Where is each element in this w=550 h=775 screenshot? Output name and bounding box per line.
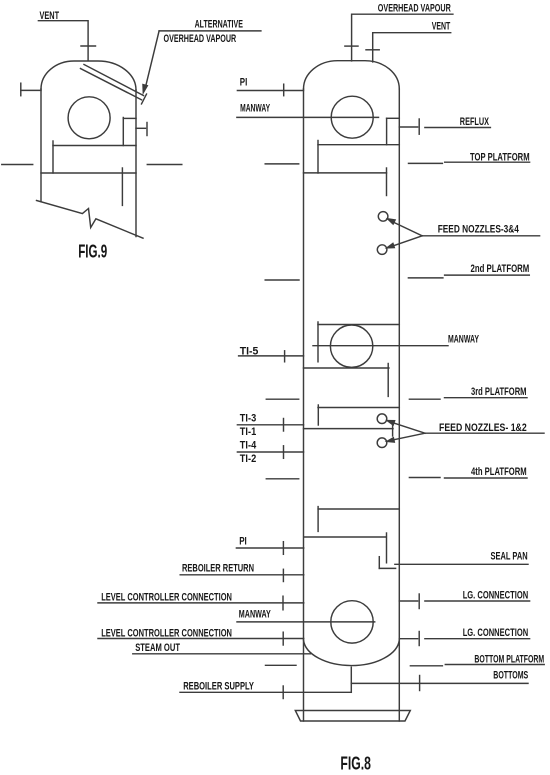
4th platform dash right [409,477,440,479]
manway leader line (bottom) [237,621,375,623]
seal pan downcomer vertical [386,533,388,563]
svg-text:2nd PLATFORM: 2nd PLATFORM [471,263,530,275]
alternative label arrowhead [143,85,147,93]
PI flange tick (bottom) [282,542,284,555]
tray 6 (FIG.8) [318,508,399,510]
PI nozzle line (top) [237,90,303,92]
LG connection flange tick (upper) [418,594,420,609]
svg-text:BOTTOM PLATFORM: BOTTOM PLATFORM [474,653,544,665]
level controller flange tick (upper) [282,596,284,610]
svg-text:LEVEL CONTROLLER CONNECTION: LEVEL CONTROLLER CONNECTION [101,627,232,639]
break line with zigzag (FIG.9) [37,201,144,239]
alternative label arrow shaft [146,31,159,85]
top platform label line [445,161,530,163]
TI-3/TI-1 nozzle line [237,424,303,426]
4th platform label line [445,477,528,479]
svg-text:FEED NOZZLES-3&4: FEED NOZZLES-3&4 [438,223,520,235]
left nozzle flange tick (FIG.9) [20,83,22,96]
svg-text:OVERHEAD VAPOUR: OVERHEAD VAPOUR [164,33,237,45]
TI-4/TI-2 nozzle line [237,451,303,453]
column left wall [303,89,305,721]
4th platform dash left [266,478,298,480]
reflux notch top (FIG.8) [387,117,400,119]
reflux flange tick [418,119,420,134]
downcomer 2 (FIG.8) [386,168,388,196]
pipe end flange tick (FIG.9) [142,94,147,104]
svg-text:OVERHEAD VAPOUR: OVERHEAD VAPOUR [378,3,451,15]
tray 5 (FIG.8) [318,407,399,409]
arrow to feed nozzle 4 [390,236,422,247]
alternative label underline [159,30,261,32]
PI flange tick (top) [283,84,285,96]
bottoms line [351,682,528,684]
vent nozzle flange tick (FIG.9) [81,45,96,47]
reflux notch vertical (FIG.8) [386,118,388,144]
svg-text:VENT: VENT [432,21,451,33]
LG connection label line (lower) [425,638,530,640]
arrow to feed nozzle 2 [390,433,425,440]
downcomer 5 (FIG.8) [317,405,319,425]
TI-5 flange tick [284,351,286,362]
svg-text:TI-4: TI-4 [240,440,257,452]
svg-text:REBOILER RETURN: REBOILER RETURN [182,562,254,574]
reflux nozzle line [399,126,417,128]
reboiler return line [180,574,304,576]
downcomer 4 (FIG.8) [387,364,389,397]
level controller connection line (lower) [98,638,304,640]
svg-text:FIG.8: FIG.8 [340,754,371,774]
TI-5 nozzle line [239,355,304,357]
tray 3 (FIG.8) [318,324,399,326]
svg-text:BOTTOMS: BOTTOMS [493,669,528,681]
downcomer 2 (FIG.9) [121,168,123,205]
arrow to feed nozzle 1 [390,422,425,433]
svg-text:MANWAY: MANWAY [448,334,479,346]
svg-text:TI-1: TI-1 [240,426,256,438]
svg-text:TI-3: TI-3 [240,413,256,425]
manway circle (middle) [330,325,372,367]
svg-text:3rd PLATFORM: 3rd PLATFORM [471,386,527,398]
svg-text:LG. CONNECTION: LG. CONNECTION [463,627,529,639]
svg-text:STEAM OUT: STEAM OUT [135,642,180,654]
svg-text:LEVEL CONTROLLER CONNECTION: LEVEL CONTROLLER CONNECTION [101,591,232,603]
reflux notch vertical (FIG.9) [122,118,124,146]
reflux notch top (FIG.9) [123,117,136,119]
feed nozzle 3 circle [378,212,388,222]
vent leader line (FIG.9) [38,21,88,61]
feed nozzles 3&4 label line [422,235,539,237]
vent flange tick (FIG.8) [366,49,379,51]
2nd platform dash right [408,277,443,279]
svg-text:LG. CONNECTION: LG. CONNECTION [463,590,529,602]
2nd platform label line [445,274,530,276]
level controller connection line (upper) [98,602,304,604]
TI-4 flange tick [283,446,285,459]
PI nozzle line (bottom) [236,547,303,549]
level controller flange tick (lower) [282,632,284,645]
centreline dash left (FIG.9) [2,164,33,166]
alternative overhead vapour pipe upper line (FIG.9) [84,65,144,96]
manway leader line (top) [237,116,379,118]
svg-text:TI-2: TI-2 [240,453,256,465]
column dome (FIG.8) [304,61,400,89]
arrowhead feed nozzle 2 [387,438,394,442]
vessel right wall (FIG.9) [135,90,137,237]
svg-text:PI: PI [239,536,247,548]
top platform dash left [265,163,299,165]
svg-text:SEAL PAN: SEAL PAN [491,551,528,563]
arrowhead feed nozzle 3 [388,219,395,224]
reboiler return flange tick [282,569,284,581]
right nozzle line (FIG.9) [136,127,146,129]
reflux label line [425,127,491,129]
svg-text:REFLUX: REFLUX [460,116,490,128]
right nozzle flange tick (FIG.9) [146,123,148,136]
bottom platform dash left [266,664,297,666]
2nd platform dash left [265,279,299,281]
downcomer 3 (FIG.8) [317,322,319,362]
vent leader + nozzle (FIG.8) [373,33,451,62]
arrowhead feed nozzle 1 [387,421,394,425]
manway circle (FIG.9) [68,97,110,139]
LG connection nozzle line (upper) [399,600,417,602]
bottom dished head [304,640,400,666]
svg-text:MANWAY: MANWAY [239,608,271,620]
tray 2 (FIG.8) [304,172,387,174]
seal pan bottom [379,567,395,569]
alternative overhead vapour pipe lower line (FIG.9) [81,69,142,100]
bottoms outlet pipe [350,667,352,692]
LG connection label line (upper) [425,600,530,602]
arrow to feed nozzle 3 [391,221,423,236]
LG connection flange tick (lower) [418,632,420,646]
tray 2 (FIG.9) [41,172,136,174]
top platform dash right [409,162,443,164]
column right wall [398,89,400,721]
svg-text:PI: PI [240,77,248,89]
downcomer 1 (FIG.8) [317,141,319,174]
tray 1 (FIG.8) [318,144,399,146]
feed nozzle 1 circle [377,414,387,424]
seal pan label line [395,563,528,565]
reboiler supply flange tick [282,686,284,699]
centreline dash right (FIG.9) [147,164,182,166]
left nozzle line (FIG.9) [21,89,41,91]
feed nozzles 1&2 label line [425,432,544,434]
svg-text:MANWAY: MANWAY [240,102,270,114]
vessel dome (FIG.9) [41,61,136,90]
steam out line [133,653,311,655]
svg-text:FEED NOZZLES- 1&2: FEED NOZZLES- 1&2 [439,422,527,434]
skirt base [295,711,410,722]
arrowhead feed nozzle 4 [387,243,394,247]
TI-1 interior tick [392,421,394,436]
svg-text:FIG.9: FIG.9 [78,242,107,262]
downcomer 6 (FIG.8) [317,507,319,532]
overhead vapour leader + nozzle [352,14,453,61]
tray 4 (FIG.8) [304,367,389,369]
3rd platform dash right [409,398,440,400]
LG connection nozzle line (lower) [399,638,417,640]
seal pan wall [378,557,380,569]
label ALTERNATIVE OVERHEAD VAPOUR [164,19,243,46]
bottom platform label line [445,664,544,666]
svg-text:4th PLATFORM: 4th PLATFORM [471,466,527,478]
svg-text:REBOILER SUPPLY: REBOILER SUPPLY [183,681,254,693]
bottoms flange tick [419,676,421,691]
overhead vapour flange tick [345,45,358,47]
svg-text:ALTERNATIVE: ALTERNATIVE [195,19,243,31]
feed nozzle 4 circle [377,245,387,255]
seal pan top line [304,536,387,538]
vessel left wall (FIG.9) [40,89,42,202]
3rd platform label line [445,397,528,399]
TI-1 interior line [304,428,394,430]
tray 1 (FIG.9) [53,145,136,147]
bottom platform dash right [410,665,442,667]
feed nozzle 2 circle [377,438,387,448]
3rd platform dash left [266,398,298,400]
manway circle (top) [331,96,373,138]
manway leader line (middle) [313,345,448,347]
TI-3 flange tick [283,419,285,432]
reboiler supply line [180,691,351,693]
manway circle (bottom) [331,601,373,643]
downcomer 1 (FIG.9) [52,141,54,173]
